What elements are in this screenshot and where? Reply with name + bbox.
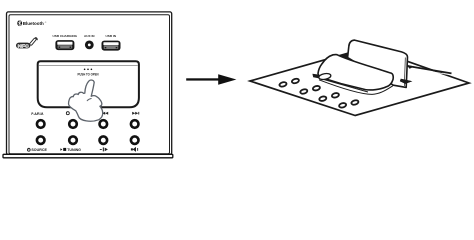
screw hole 5 xyxy=(319,96,327,102)
curved door band xyxy=(318,55,393,90)
svg-text:PUSH TO OPEN: PUSH TO OPEN xyxy=(78,73,99,77)
button pairing/memory xyxy=(36,119,46,129)
label skip fwd xyxy=(132,112,139,115)
svg-text:TUNING: TUNING xyxy=(67,148,81,152)
screw hole 4 xyxy=(312,85,320,91)
pressing hand xyxy=(69,80,103,121)
NFC logo xyxy=(16,38,37,50)
svg-text:AUX IN: AUX IN xyxy=(84,34,95,38)
screw hole 6 xyxy=(331,92,339,98)
button volume xyxy=(130,135,140,145)
button skip back xyxy=(98,119,108,129)
label skip back xyxy=(101,112,108,115)
door foot shadow xyxy=(400,79,412,84)
bluetooth logo xyxy=(17,20,46,26)
pencil on panel edge xyxy=(406,65,451,75)
band curl ring xyxy=(318,73,331,81)
button skip forward xyxy=(130,119,140,129)
screw hole 8 xyxy=(351,100,359,106)
three dots xyxy=(84,69,92,71)
svg-text:Bluetooth: Bluetooth xyxy=(23,21,44,26)
button mode xyxy=(68,119,78,129)
device base bar xyxy=(3,154,173,158)
door foot shadow xyxy=(400,79,412,84)
screw hole 3 xyxy=(300,89,308,95)
button source/power xyxy=(36,135,46,145)
screw hole 1 xyxy=(279,81,287,87)
USB in port xyxy=(102,41,121,51)
button tuning xyxy=(68,135,78,145)
recess slot xyxy=(319,79,393,94)
screw hole 2 xyxy=(291,78,299,84)
label circle above button 2 xyxy=(66,112,69,115)
mounting template panel xyxy=(250,48,469,116)
device front panel outer frame xyxy=(7,12,172,155)
open door back plate xyxy=(348,40,408,87)
svg-text:SOURCE: SOURCE xyxy=(31,148,47,152)
svg-text:NFC: NFC xyxy=(18,43,30,49)
arrow xyxy=(186,74,236,85)
CD door xyxy=(38,61,139,107)
svg-text:P-A/R.M.: P-A/R.M. xyxy=(31,112,44,116)
screw hole 7 xyxy=(339,102,347,108)
AUX IN jack xyxy=(85,41,94,50)
label power SOURCE xyxy=(27,148,47,152)
door seam line xyxy=(38,65,138,67)
button play/pause xyxy=(98,135,108,145)
label tuning xyxy=(60,148,81,152)
label play/pause xyxy=(100,147,108,151)
curl dark tip xyxy=(312,74,319,78)
shadow wedge between plate and door xyxy=(338,54,349,59)
label volume speaker xyxy=(131,147,138,152)
USB charging port xyxy=(55,40,74,50)
plate right edge inner line xyxy=(403,58,406,87)
svg-text:USB IN: USB IN xyxy=(106,34,117,38)
svg-text:USB CHARGING: USB CHARGING xyxy=(53,34,78,38)
